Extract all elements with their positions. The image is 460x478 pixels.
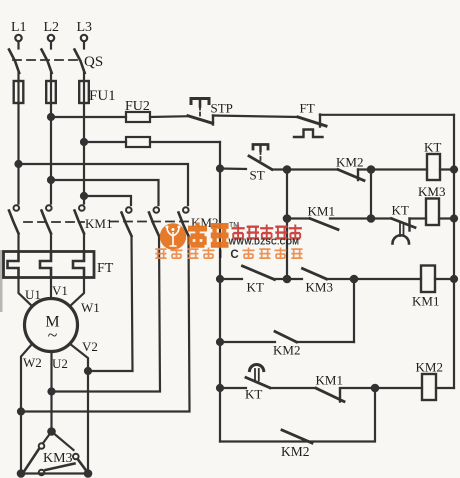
svg-text:V2: V2 bbox=[82, 339, 98, 354]
node KM3 bottom-right bbox=[85, 470, 91, 476]
switch QS link (dashed) bbox=[13, 59, 80, 61]
wire STP to FT bbox=[213, 116, 298, 118]
node left rail row5 bbox=[217, 385, 223, 391]
wire L3 main vertical bbox=[83, 103, 85, 204]
svg-text:ST: ST bbox=[250, 168, 265, 183]
wire L3 to fuse FU2b bbox=[84, 141, 126, 143]
thermal contact FT (NC) bbox=[294, 115, 326, 138]
contactor KM1 pole 1 bbox=[9, 205, 19, 251]
contact KT delayed (NO) with umbrella bbox=[246, 364, 270, 387]
thermal relay FT element 3 bbox=[73, 252, 84, 278]
node left rail ST branch bbox=[217, 166, 223, 172]
contact KM2 (NO) row4 bbox=[275, 332, 297, 343]
wire node A down bbox=[286, 170, 288, 280]
fuse FU1 pole 2 bbox=[46, 73, 56, 103]
node A2 bbox=[284, 215, 290, 221]
wire W1 bbox=[70, 278, 84, 307]
svg-text:FU1: FU1 bbox=[89, 88, 116, 104]
fuse FU2 lower bbox=[126, 137, 220, 147]
wire rail to KM2 contact row4 bbox=[220, 341, 275, 343]
svg-text:U2: U2 bbox=[52, 356, 68, 371]
svg-text:QS: QS bbox=[84, 54, 103, 70]
node right rail row3 bbox=[451, 276, 457, 282]
watermark char 库 bbox=[211, 226, 229, 245]
contact KM1 (NO) bbox=[310, 219, 371, 230]
node right rail row2 bbox=[451, 216, 457, 222]
wire KM2 row4 to node C bbox=[297, 341, 355, 343]
wire U1 bbox=[19, 278, 33, 307]
svg-text:KT: KT bbox=[392, 203, 409, 218]
wire A2 to KM1 contact bbox=[287, 217, 310, 219]
watermark char 维 bbox=[188, 223, 207, 247]
wire KM3 coil to right rail bbox=[439, 217, 454, 219]
button ST contact (NO) bbox=[249, 156, 272, 170]
watermark chars 电子市场网 bbox=[232, 225, 302, 240]
node right rail row1 bbox=[451, 167, 457, 173]
watermark chars 全球最大IC采购网站 bbox=[155, 248, 214, 259]
wire L2 main vertical bbox=[50, 103, 52, 204]
wire KM1 row5 to KM2 coil bbox=[340, 387, 422, 389]
wire L3 branch to KM2 pole 1 bbox=[84, 196, 131, 205]
svg-text:KM3: KM3 bbox=[418, 184, 445, 199]
wire bottom row bbox=[220, 388, 375, 442]
contactor KM3 bottom contact bbox=[21, 464, 88, 476]
node L1 branch bbox=[16, 161, 22, 167]
fuse FU1 pole 1 bbox=[14, 73, 24, 103]
contactor KM2 pole 2 bbox=[52, 207, 161, 391]
wire KM2 contact to KT coil bbox=[358, 168, 427, 170]
relay coil KT bbox=[427, 154, 440, 180]
contactor KM1 link (dashed) bbox=[24, 221, 84, 223]
contact KM1 (NC) row5 bbox=[316, 388, 344, 401]
svg-text:KM2: KM2 bbox=[336, 155, 363, 170]
wire node B down bbox=[370, 170, 372, 219]
node left rail row4 bbox=[217, 339, 223, 345]
contactor KM1 pole 2 bbox=[42, 205, 52, 251]
node L3 branch to FU2 bbox=[81, 139, 87, 145]
contactor coil KM2 bbox=[422, 374, 436, 400]
svg-text:U1: U1 bbox=[25, 287, 41, 302]
wire B2 to KT contact bbox=[371, 217, 392, 219]
node B KT branch bbox=[368, 166, 374, 172]
thermal relay FT box bbox=[4, 252, 95, 278]
wire U2 motor to star point bbox=[49, 352, 55, 432]
fuse FU1 pole 3 bbox=[79, 73, 89, 103]
svg-text:KM2: KM2 bbox=[273, 343, 300, 358]
node L2 branch to FU2 bbox=[48, 114, 54, 120]
contact KM3 (NO) bbox=[303, 269, 327, 280]
wire V2 motor to bottom bbox=[70, 344, 91, 474]
contactor KM2 link (dashed) bbox=[110, 221, 190, 223]
switch QS pole 2 blade bbox=[42, 50, 52, 74]
button ST cap bbox=[253, 145, 268, 162]
svg-text:L3: L3 bbox=[77, 20, 93, 35]
scan artifact left edge bbox=[0, 250, 3, 312]
contactor KM2 pole 3 bbox=[21, 207, 190, 411]
thermal relay FT element 1 bbox=[8, 252, 19, 278]
svg-text:KM1: KM1 bbox=[85, 216, 112, 231]
svg-text:KT: KT bbox=[424, 140, 441, 155]
svg-text:L1: L1 bbox=[11, 20, 27, 35]
node A3 bbox=[284, 276, 290, 282]
svg-text:KM3: KM3 bbox=[306, 280, 333, 295]
contact KT (NO) bbox=[243, 266, 275, 280]
svg-text:I C: I C bbox=[219, 249, 241, 261]
node D bbox=[372, 385, 378, 391]
svg-text:KT: KT bbox=[245, 387, 262, 402]
WATERMARK bbox=[155, 222, 302, 261]
node left rail row3 bbox=[217, 276, 223, 282]
wire KM2 coil to right rail bbox=[436, 387, 454, 389]
svg-text:KT: KT bbox=[247, 280, 264, 295]
wire KT coil to right rail bbox=[440, 168, 454, 170]
wire KT to KM1 contact row5 bbox=[270, 387, 316, 389]
svg-text:FT: FT bbox=[97, 261, 114, 276]
contactor KM2 pole 1 bbox=[88, 207, 133, 371]
svg-text:STP: STP bbox=[211, 101, 233, 116]
wire KT contact to KM3 coil bbox=[410, 217, 427, 219]
contactor coil KM3 bbox=[426, 199, 439, 226]
wire node C down bbox=[353, 279, 355, 342]
node KM3 bottom-left bbox=[18, 470, 24, 476]
button STP cap bbox=[191, 99, 209, 117]
wire rail to KT contact bbox=[220, 278, 242, 280]
contactor KM3 left contact bbox=[24, 432, 52, 472]
terminal L3 bbox=[81, 35, 87, 49]
terminal L1 bbox=[15, 35, 21, 49]
wire FT to right rail bbox=[320, 114, 454, 116]
svg-text:KM1: KM1 bbox=[412, 294, 439, 309]
wire L2 to fuse FU2a bbox=[51, 116, 126, 118]
contact KM2 (NC interlock) bbox=[338, 170, 364, 181]
node C bbox=[351, 276, 357, 282]
wire KM3 contact to KM1 coil bbox=[327, 278, 422, 280]
wire L1 main vertical bbox=[17, 103, 19, 204]
contactor coil KM1 bbox=[421, 266, 435, 293]
motor M symbol text bbox=[45, 314, 59, 346]
wire KM1 coil to right rail bbox=[435, 278, 454, 280]
terminal L2 bbox=[48, 35, 54, 49]
node B2 bbox=[368, 215, 374, 221]
node A after ST bbox=[284, 166, 290, 172]
wire ST to KM2 contact bbox=[272, 168, 338, 170]
thermal relay FT element 2 bbox=[40, 252, 51, 278]
wire L1 branch to KM2 pole 3 bbox=[19, 164, 189, 205]
svg-text:~: ~ bbox=[48, 325, 58, 345]
contact KT delayed (NC) with parachute bbox=[392, 219, 416, 244]
wire KT to KM3 contact bbox=[275, 278, 303, 280]
svg-text:FT: FT bbox=[300, 101, 315, 116]
wire rail to KT delayed contact bbox=[220, 387, 246, 389]
contact KM2 (NO) bottom bbox=[282, 430, 312, 443]
node L2 branch bbox=[48, 177, 54, 183]
switch QS pole 1 blade bbox=[9, 50, 19, 74]
fuse FU2 upper bbox=[126, 112, 189, 122]
svg-text:KM2: KM2 bbox=[416, 360, 443, 375]
motor M circle bbox=[25, 299, 78, 352]
wire L2 branch to KM2 pole 2 bbox=[51, 180, 159, 205]
wire rail to ST bbox=[220, 167, 246, 170]
watermark logo circle bbox=[160, 223, 186, 249]
wire V1 bbox=[50, 278, 52, 299]
contactor KM3 star apex node bbox=[48, 428, 54, 434]
svg-text:L2: L2 bbox=[44, 20, 60, 35]
svg-text:W2: W2 bbox=[23, 355, 42, 370]
node L3 branch bbox=[81, 193, 87, 199]
wire left rail bbox=[219, 142, 221, 442]
svg-text:WWW.DZSC.COM: WWW.DZSC.COM bbox=[229, 238, 300, 247]
svg-text:KM1: KM1 bbox=[316, 373, 343, 388]
wire W2 motor to bottom bbox=[18, 344, 32, 474]
contactor KM3 right contact bbox=[52, 432, 87, 472]
svg-text:KM2: KM2 bbox=[281, 444, 310, 459]
button STP contact (NC) bbox=[188, 116, 213, 125]
wire right rail bbox=[453, 115, 455, 388]
svg-text:KM1: KM1 bbox=[308, 204, 335, 219]
contactor KM1 pole 3 bbox=[75, 205, 85, 251]
switch QS pole 3 blade bbox=[75, 50, 85, 74]
svg-text:W1: W1 bbox=[81, 300, 100, 315]
svg-text:FU2: FU2 bbox=[125, 99, 150, 114]
svg-text:V1: V1 bbox=[52, 283, 68, 298]
svg-text:KM3: KM3 bbox=[43, 451, 73, 466]
